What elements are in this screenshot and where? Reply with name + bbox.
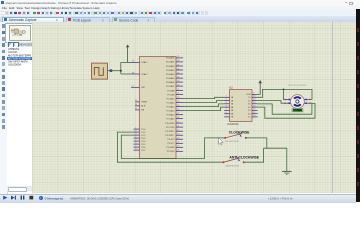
wire U2 COM to VCC (257, 94, 259, 96)
svg-text:x: x (353, 1, 355, 5)
wire SW2 output up (243, 149, 263, 163)
ground symbol (281, 172, 291, 175)
wire common node to ground (263, 149, 286, 172)
svg-text:ANIMATING: 00:00:01.050000 (CP: ANIMATING: 00:00:01.050000 (CPU load 52%… (70, 196, 129, 200)
schematic canvas (32, 22, 356, 193)
wire U1 P2.4 to U2 3B (183, 104, 224, 107)
sheet edge line (331, 22, 333, 193)
svg-text:Schematic Capture: Schematic Capture (9, 18, 37, 22)
wire U2 4C outer bottom route (257, 104, 314, 119)
tab bar (0, 16, 360, 22)
mouse cursor (218, 138, 222, 145)
wire pulse generator to junction (107, 70, 120, 72)
U1 inside pin name labels (141, 62, 148, 112)
U1 left pins XTAL1 XTAL2 RST stubs (131, 63, 139, 88)
wire branch to motor left-upper pin (283, 90, 285, 100)
wire U1 P2.5 to U2 4B (183, 107, 224, 110)
svg-text:View: View (16, 6, 23, 10)
svg-text:PCB Layout: PCB Layout (73, 18, 91, 22)
junction dot (119, 70, 121, 72)
svg-text:Source Code: Source Code (119, 18, 138, 22)
toolbar (0, 10, 360, 17)
wire U1 P1.2 loop to CLOCKWISE switch (121, 135, 224, 158)
svg-text:Tool: Tool (24, 6, 30, 10)
U1 pin numbers 19 18 9 (131, 61, 134, 88)
svg-text:AT89C51: AT89C51 (8, 47, 20, 51)
motor pin stubs (285, 100, 310, 104)
U1 pin numbers 29 30 31 (134, 101, 137, 111)
svg-text:steppermotorclockwise&anticloc: steppermotorclockwise&anticlockwise - Pr… (6, 1, 118, 5)
switch SW2 ANTI-CLOCKWISE (222, 157, 244, 164)
U1 right pins P0 P2 P3 stubs with numbers (176, 58, 183, 151)
wire U1 P2.2 to U2 1B (183, 98, 224, 99)
ULN2003A driver U2 body (229, 90, 251, 122)
svg-text:L: L (14, 42, 16, 46)
svg-text:+1296.0 +700.0 th: +1296.0 +700.0 th (268, 196, 293, 200)
wire U2 3C bottom route to motor right-lower pin (257, 104, 311, 115)
svg-text:System: System (82, 6, 93, 10)
svg-text:Template: Template (70, 6, 83, 10)
power symbol VCC arrow at U2 COM (258, 80, 262, 94)
stepper motor body (290, 95, 304, 109)
svg-text:x: x (148, 18, 150, 22)
switch SW1 CLOCKWISE (224, 133, 247, 140)
svg-text:Edit: Edit (9, 6, 14, 10)
U2 left pins 1B-7B stubs (224, 98, 229, 118)
svg-text:DEVICES: DEVICES (19, 42, 33, 46)
wire U2 2C to motor left-lower pin (257, 101, 284, 104)
left panel preview window (5, 23, 34, 43)
U1 left pins P1.0-P1.7 stubs with numbers 1-8 (133, 129, 139, 150)
wire to XTAL2 pin (120, 73, 130, 75)
devices header (7, 42, 32, 47)
wire U1 P2.3 to U2 2B (183, 101, 224, 103)
wire U1 P1.1 loop to ANTI-CLOCKWISE switch (117, 132, 223, 162)
wire U2 1C top route to motor right-upper pin (257, 90, 311, 100)
status bar (0, 194, 356, 203)
wire junction vertical between XTAL rows (119, 63, 121, 75)
junction dot top net (282, 89, 284, 91)
svg-text:0 Message(s): 0 Message(s) (45, 196, 64, 200)
black desktop strip on right (356, 9, 360, 202)
power symbol VCC arrow left (125, 45, 129, 63)
svg-text:P: P (9, 42, 11, 46)
pulse generator source (91, 63, 107, 79)
svg-text:i: i (40, 196, 41, 200)
left mode toolbar (0, 22, 8, 193)
svg-text:File: File (2, 6, 7, 10)
svg-text:Design: Design (31, 6, 41, 10)
motor pin base markers (288, 99, 306, 104)
microcontroller U1 8051 body (139, 57, 175, 159)
title bar (0, 0, 360, 6)
svg-text:Debug: Debug (51, 6, 60, 10)
motor RPM display (291, 109, 302, 113)
wire to XTAL1 pin (120, 62, 130, 64)
svg-text:Library: Library (60, 6, 70, 10)
menu bar (0, 6, 360, 11)
svg-text:x: x (102, 18, 104, 22)
svg-text:Graph: Graph (41, 6, 50, 10)
wire SW1 output down (245, 138, 266, 148)
motor pin end dots (284, 99, 310, 104)
device list (7, 47, 33, 187)
svg-text:Help: Help (93, 6, 100, 10)
pulse generator output terminal marker (109, 70, 111, 72)
panel horizontal scrollbar (7, 186, 32, 191)
svg-text:x: x (56, 18, 58, 22)
U1 left pins PSEN ALE EA stubs (135, 102, 139, 110)
U2 right pins COM 1C-7C stubs (251, 95, 257, 117)
